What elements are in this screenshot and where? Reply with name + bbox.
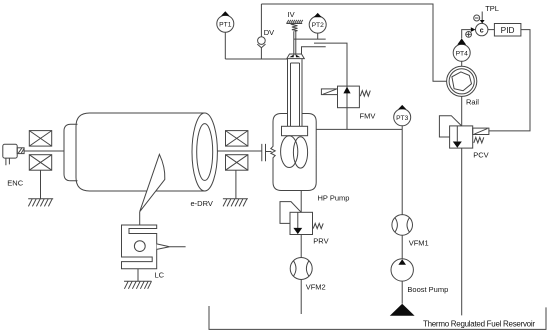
wire VFM2 to reservoir xyxy=(300,280,302,315)
wire boost feed y129 xyxy=(316,128,402,130)
wire PRV to VFM2 xyxy=(300,235,302,258)
valve PRV pilot loop xyxy=(280,202,301,224)
pump Boost Pump xyxy=(391,259,413,281)
wire PID to PCV solenoid xyxy=(489,30,530,131)
arrowhead into summing junction left xyxy=(471,27,476,32)
wire outlet gallery y59 xyxy=(225,58,287,60)
IV needle xyxy=(294,31,296,55)
wire coupling to pump wall xyxy=(266,151,272,153)
valve FMV arrow xyxy=(343,87,350,94)
svg-text:Boost Pump: Boost Pump xyxy=(407,285,448,294)
bearing left upper xyxy=(29,131,51,147)
svg-text:IV: IV xyxy=(288,10,295,19)
svg-text:VFM1: VFM1 xyxy=(409,238,429,247)
HP pump tappet xyxy=(282,126,308,135)
svg-text:PT4: PT4 xyxy=(456,50,469,57)
svg-text:c: c xyxy=(480,27,484,34)
valve PRV spring xyxy=(313,223,323,228)
bearing right lower xyxy=(226,155,248,171)
IV anchor hatch xyxy=(286,20,302,24)
ground under left bearing xyxy=(28,199,53,207)
accumulator Rail inner xyxy=(449,69,474,94)
wire FMV to boost line xyxy=(346,108,348,130)
HP pump plunger xyxy=(291,63,300,126)
HP pump barrel flare xyxy=(287,54,305,59)
HP pump barrel cap top xyxy=(290,53,302,55)
HP pump cam ellipse 1 xyxy=(281,136,298,168)
wire PT4 to summing junction xyxy=(462,30,471,39)
svg-text:TPL: TPL xyxy=(485,4,499,13)
check valve DV xyxy=(257,4,265,59)
svg-text:HP Pump: HP Pump xyxy=(318,194,350,203)
wire HP line top xyxy=(261,4,446,81)
IV spring xyxy=(292,24,298,32)
valve FMV body xyxy=(338,86,360,108)
ground under load cell xyxy=(124,281,152,289)
valve FMV spring xyxy=(360,91,370,97)
summing junction c xyxy=(476,23,488,35)
valve PCV pilot loop xyxy=(439,116,461,137)
wire rail to PT4 xyxy=(461,61,463,66)
svg-text:ENC: ENC xyxy=(7,179,23,188)
wire rail to PCV xyxy=(461,96,463,126)
wire VFM1 to boost pump xyxy=(401,235,403,259)
wire shaft left (encoder to motor) xyxy=(24,150,64,152)
HP pump cam ellipse 2 xyxy=(293,137,307,168)
accumulator Rail hexagon xyxy=(452,72,472,91)
torque arm xyxy=(140,154,165,211)
plus symbol xyxy=(466,32,472,38)
arrowhead into summing junction top xyxy=(480,20,485,23)
valve PCV internal arrow xyxy=(453,126,462,148)
gauge PT3 xyxy=(394,105,411,129)
wire load cell to ground xyxy=(137,269,139,281)
wire barrel gallery line3 xyxy=(302,47,326,54)
valve PRV internal arrow xyxy=(293,212,302,234)
suction strainer triangle xyxy=(390,304,415,316)
wire boost line vertical xyxy=(401,129,403,214)
svg-text:PT2: PT2 xyxy=(312,22,325,29)
motor e-DRV inner end ellipse xyxy=(197,124,213,181)
svg-text:PRV: PRV xyxy=(313,236,328,245)
encoder ENC pins xyxy=(6,158,9,165)
wire inlet plate line1 xyxy=(294,38,326,40)
wire pump drain to PRV xyxy=(300,191,302,213)
gauge PT1 xyxy=(217,11,234,59)
IV valve seat wedges xyxy=(289,55,300,58)
encoder ENC body xyxy=(3,144,17,158)
valve PCV solenoid xyxy=(473,128,489,134)
coupling plates xyxy=(262,144,266,161)
wire FMV feed line2 xyxy=(314,43,347,86)
motor e-DRV body xyxy=(76,113,205,191)
minus symbol xyxy=(474,15,480,21)
valve PCV spring xyxy=(474,137,484,143)
svg-text:PT3: PT3 xyxy=(396,115,409,122)
svg-text:e-DRV: e-DRV xyxy=(191,199,213,208)
motor e-DRV end ellipse xyxy=(192,113,217,191)
gauge PT4 xyxy=(453,38,470,61)
svg-text:Thermo Regulated Fuel Reservoi: Thermo Regulated Fuel Reservoir xyxy=(423,320,535,329)
valve FMV internal line xyxy=(346,86,348,108)
svg-text:PT1: PT1 xyxy=(219,21,232,28)
svg-text:FMV: FMV xyxy=(360,112,376,121)
svg-text:PID: PID xyxy=(501,25,515,35)
flow meter VFM2 xyxy=(290,258,312,280)
valve PCV body xyxy=(450,126,473,148)
valve FMV solenoid xyxy=(321,89,337,95)
gauge PT2 xyxy=(309,13,326,39)
accumulator Rail outer xyxy=(447,66,477,96)
bearing right upper xyxy=(226,131,248,147)
wire shaft right (motor to coupling) xyxy=(217,150,261,152)
svg-text:PCV: PCV xyxy=(473,150,488,159)
HP pump body xyxy=(271,114,316,191)
ground under right bearing xyxy=(223,199,248,207)
svg-text:VFM2: VFM2 xyxy=(306,282,326,291)
motor e-DRV left end cap xyxy=(64,124,78,181)
bearing left lower xyxy=(29,155,51,171)
svg-text:LC: LC xyxy=(155,271,165,280)
wire torque arm to load cell xyxy=(139,212,141,225)
wire bearing left to ground xyxy=(40,170,42,199)
wire bearing right to ground xyxy=(235,170,237,199)
svg-text:DV: DV xyxy=(264,28,274,37)
wire load cell pointer xyxy=(170,246,186,248)
controller PID box xyxy=(494,24,521,37)
svg-text:Rail: Rail xyxy=(466,98,479,107)
wire PCV to reservoir xyxy=(461,148,463,315)
load cell pointer xyxy=(157,244,170,250)
load cell LC circle xyxy=(134,241,145,252)
encoder ENC shaft connector xyxy=(17,148,24,154)
wire summing to PID xyxy=(488,29,495,31)
flow meter VFM1 xyxy=(392,215,413,236)
load cell LC body xyxy=(122,225,157,269)
valve PRV body xyxy=(290,212,313,234)
wire boost pump suction xyxy=(401,281,403,304)
HP pump barrel walls xyxy=(288,59,303,127)
wire TPL input xyxy=(481,12,483,21)
reservoir outline xyxy=(209,306,546,329)
